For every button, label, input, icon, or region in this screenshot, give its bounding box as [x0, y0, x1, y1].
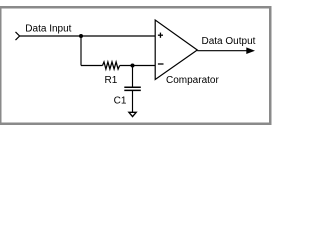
wire: junction down to feedback branch: [80, 36, 82, 66]
svg-text:Data Output: Data Output: [202, 36, 256, 47]
pin - mark: [158, 63, 164, 65]
wire: resistor to op-amp - pin: [120, 65, 156, 67]
wire: op-amp output: [197, 50, 249, 52]
input port chevron: [16, 32, 20, 40]
svg-text:R1: R1: [105, 75, 118, 86]
svg-text:C1: C1: [114, 96, 127, 107]
svg-text:Data Input: Data Input: [25, 23, 71, 34]
node junction at R1/C1: [131, 64, 135, 68]
pin + mark: [158, 33, 163, 38]
wire: capacitor to ground: [132, 90, 134, 112]
op-amp U1 comparator body: [155, 20, 197, 80]
resistor R1: [103, 62, 120, 69]
wire: branch to resistor R1 left lead: [81, 65, 103, 67]
output arrowhead: [246, 47, 255, 54]
wire: junction down to capacitor C1: [132, 66, 134, 88]
capacitor C1: [124, 87, 141, 90]
border frame: [0, 7, 270, 124]
wire: input to op-amp + pin: [20, 35, 156, 37]
node junction on input wire: [79, 34, 83, 38]
svg-text:Comparator: Comparator: [166, 75, 219, 86]
ground: [129, 112, 136, 116]
